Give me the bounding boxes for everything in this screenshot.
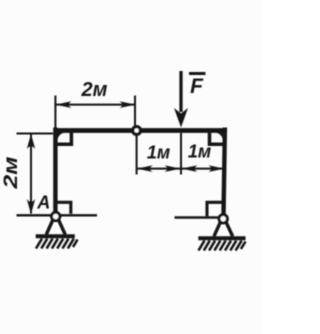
triangle support A (46, 220, 65, 235)
dimension line 2m left vertical (30, 135, 32, 214)
corner fillet top-left (58, 133, 66, 141)
pin circle right support (219, 215, 227, 223)
arrowhead top of 2m left (27, 134, 35, 149)
corner bracket top-left (58, 133, 72, 145)
svg-text:2м: 2м (0, 157, 21, 190)
beam top horizontal member (54, 128, 228, 133)
corner fillet top-right (215, 133, 223, 141)
extension line below force point (180, 133, 182, 175)
corner bracket top-right (210, 133, 223, 145)
base line support A (36, 234, 75, 238)
left column (53, 128, 57, 214)
hinge circle on beam (133, 127, 141, 135)
dimension line 1m 1m (138, 168, 224, 170)
svg-text:1м: 1м (188, 142, 211, 162)
arrowhead at hinge extension (137, 165, 153, 172)
extension line left of beam for vertical 2m (17, 133, 54, 135)
pin circle support A (52, 212, 60, 220)
ground line at right support (175, 216, 222, 218)
arrowhead left of 2m top (56, 101, 72, 108)
arrowhead right of 2m top (120, 101, 136, 108)
right column (224, 128, 225, 216)
base line right support (198, 236, 245, 240)
ground line through support A (17, 214, 98, 216)
dimension line 2m top (56, 104, 135, 106)
arrowheads at middle force extension (165, 165, 181, 172)
bracket at support A (58, 202, 71, 214)
extension line below hinge (136, 135, 138, 175)
arrowhead at right column (208, 165, 224, 172)
svg-text:2м: 2м (81, 79, 108, 101)
hatching right support (199, 241, 246, 251)
hatching support A (36, 239, 78, 249)
extension line above left corner (54, 96, 56, 129)
force F arrow (179, 71, 182, 112)
triangle right support (214, 222, 233, 237)
svg-text:F: F (190, 75, 204, 98)
svg-text:1м: 1м (147, 143, 170, 163)
bracket at right support (207, 202, 223, 216)
svg-text:A: A (36, 193, 50, 213)
extension line above hinge (134, 96, 136, 127)
arrowhead bottom of 2m left (27, 199, 35, 214)
